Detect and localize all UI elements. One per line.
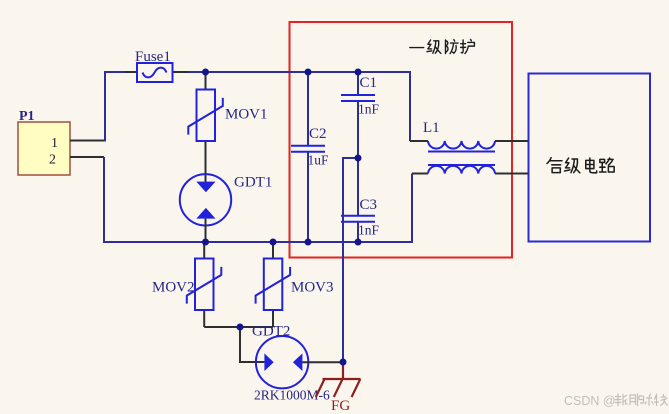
wire down to GDT2 — [240, 327, 264, 362]
svg-text:MOV2: MOV2 — [152, 280, 195, 296]
first-stage protection red box — [290, 22, 513, 258]
pin 1 stub of P1 — [70, 140, 105, 142]
svg-text:P1: P1 — [19, 109, 35, 124]
svg-text:C3: C3 — [360, 197, 378, 213]
wire from C1/C3 midpoint to FG vertical — [343, 158, 358, 362]
varistor MOV3 — [256, 242, 334, 327]
capacitor C2 — [291, 72, 329, 242]
svg-text:1nF: 1nF — [358, 223, 380, 238]
svg-text:1uF: 1uF — [308, 153, 330, 168]
svg-text:GDT2: GDT2 — [252, 324, 290, 340]
junction node MOV2/MOV3 to GDT2 — [237, 324, 244, 331]
junction node GDT1/MOV2 bottom bus — [202, 239, 209, 246]
svg-text:1: 1 — [51, 136, 58, 151]
fuse Fuse1 — [135, 49, 173, 82]
downstream circuit box 后级电路 — [529, 74, 651, 242]
svg-text:1nF: 1nF — [358, 102, 380, 117]
svg-text:C2: C2 — [309, 126, 327, 142]
svg-text:Fuse1: Fuse1 — [135, 49, 171, 65]
junction node C2 top — [305, 69, 312, 76]
junction node MOV3 bottom bus — [270, 239, 277, 246]
label 后级电路 (downstream circuit) — [547, 158, 614, 173]
junction node fuse/MOV1 top — [202, 69, 209, 76]
gas discharge tube GDT1 — [180, 174, 273, 242]
svg-text:2: 2 — [49, 153, 56, 168]
ground FG symbol — [316, 362, 361, 414]
svg-text:CSDN @: CSDN @ — [564, 394, 616, 408]
svg-text:MOV1: MOV1 — [225, 107, 268, 123]
capacitor C3 — [341, 158, 380, 242]
common-mode choke L1 — [410, 120, 529, 174]
svg-text:MOV3: MOV3 — [291, 280, 334, 296]
wire joining MOV2 and MOV3 bottoms — [204, 326, 273, 328]
wire fuse pins — [125, 71, 190, 73]
svg-text:GDT1: GDT1 — [234, 175, 272, 191]
wire bottom bus from P1 pin2 to L1 corner — [104, 157, 412, 242]
svg-text:C1: C1 — [360, 75, 378, 91]
watermark CSDN — [564, 394, 668, 409]
varistor MOV1 — [188, 72, 267, 182]
junction node C1 top — [355, 69, 362, 76]
junction node C1/C3 midpoint — [355, 155, 362, 162]
label 一级防护 (first-level protection) — [410, 39, 475, 53]
svg-text:FG: FG — [331, 398, 350, 414]
connector P1 — [18, 109, 70, 175]
varistor MOV2 — [152, 242, 221, 327]
junction node C2 bottom — [305, 239, 312, 246]
junction node C3 bottom — [355, 239, 362, 246]
svg-text:L1: L1 — [423, 120, 440, 136]
gas discharge tube GDT2 — [252, 324, 343, 403]
pin 2 stub of P1 — [70, 156, 104, 158]
wire top bus from fuse to L1 corner — [188, 72, 410, 141]
wire P1 pin1 up to fuse — [105, 72, 128, 142]
capacitor C1 — [341, 72, 380, 158]
junction node GDT2 to FG — [340, 359, 347, 366]
